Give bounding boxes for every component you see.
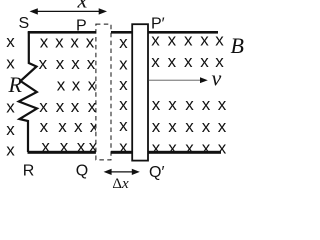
svg-text:x: x	[86, 33, 95, 52]
svg-text:Q′: Q′	[149, 164, 164, 181]
svg-text:x: x	[215, 31, 224, 50]
bottom rail	[28, 151, 222, 154]
svg-text:Q: Q	[76, 163, 88, 180]
svg-text:x: x	[77, 137, 86, 156]
svg-text:x: x	[152, 117, 161, 136]
rod P'Q' (solid, current position)	[132, 24, 148, 160]
svg-text:x: x	[184, 31, 193, 50]
svg-text:x: x	[70, 33, 79, 52]
svg-text:x: x	[6, 140, 15, 159]
svg-text:x: x	[168, 117, 177, 136]
svg-text:x: x	[6, 97, 15, 116]
field x marks: right of rod, upper rows	[151, 31, 224, 72]
svg-text:x: x	[185, 95, 194, 114]
dimension arrow delta-x	[104, 169, 140, 175]
svg-text:R: R	[8, 72, 23, 97]
svg-text:x: x	[72, 75, 81, 94]
svg-text:x: x	[168, 31, 177, 50]
svg-text:x: x	[57, 75, 66, 94]
svg-text:x: x	[55, 33, 64, 52]
velocity arrow v	[149, 77, 208, 83]
svg-text:x: x	[200, 52, 209, 71]
svg-text:x: x	[184, 52, 193, 71]
field x marks: between resistor wire and dashed box	[39, 33, 99, 157]
svg-text:x: x	[58, 117, 67, 136]
svg-text:x: x	[218, 95, 227, 114]
svg-text:x: x	[39, 54, 48, 73]
svg-text:x: x	[168, 95, 177, 114]
svg-text:x: x	[119, 138, 128, 157]
svg-text:x: x	[218, 117, 227, 136]
svg-text:R: R	[23, 163, 35, 180]
svg-text:x: x	[71, 97, 80, 116]
svg-text:x: x	[168, 52, 177, 71]
dimension arrow x (S to P)	[30, 8, 108, 14]
svg-text:x: x	[202, 117, 211, 136]
svg-text:x: x	[168, 139, 177, 158]
svg-text:x: x	[151, 52, 160, 71]
svg-text:x: x	[40, 33, 49, 52]
svg-text:x: x	[39, 97, 48, 116]
svg-text:x: x	[74, 117, 83, 136]
svg-text:x: x	[119, 116, 128, 135]
svg-text:x: x	[6, 53, 15, 72]
svg-text:x: x	[152, 139, 161, 158]
svg-text:x: x	[56, 54, 65, 73]
svg-text:x: x	[152, 95, 161, 114]
svg-text:x: x	[88, 97, 97, 116]
svg-text:x: x	[119, 54, 128, 73]
field x marks: column left of circuit	[6, 32, 15, 159]
svg-text:x: x	[40, 117, 49, 136]
svg-text:x: x	[60, 137, 69, 156]
svg-text:x: x	[6, 120, 15, 139]
svg-text:x: x	[56, 97, 65, 116]
svg-text:x: x	[71, 54, 80, 73]
svg-text:x: x	[200, 31, 209, 50]
svg-text:x: x	[6, 32, 15, 51]
svg-text:v: v	[212, 66, 222, 91]
svg-text:x: x	[202, 95, 211, 114]
svg-text:x: x	[185, 117, 194, 136]
svg-text:x: x	[41, 137, 50, 156]
dashed box: previous rod position P Q	[96, 24, 111, 160]
svg-text:S: S	[19, 15, 30, 32]
svg-text:x: x	[185, 139, 194, 158]
svg-text:x: x	[119, 75, 128, 94]
svg-text:x: x	[119, 33, 128, 52]
svg-text:Δx: Δx	[112, 176, 129, 192]
left wire + resistor zigzag	[19, 32, 37, 153]
svg-text:B: B	[231, 33, 244, 58]
svg-text:x: x	[218, 139, 227, 158]
top rail	[28, 31, 218, 34]
field x marks: right of rod, lower rows	[152, 95, 227, 157]
svg-text:x: x	[119, 95, 128, 114]
svg-text:x: x	[202, 139, 211, 158]
svg-text:x: x	[151, 31, 160, 50]
svg-text:x: x	[77, 0, 88, 12]
field x marks: between dashed box and rod	[119, 33, 128, 157]
svg-text:x: x	[87, 54, 96, 73]
